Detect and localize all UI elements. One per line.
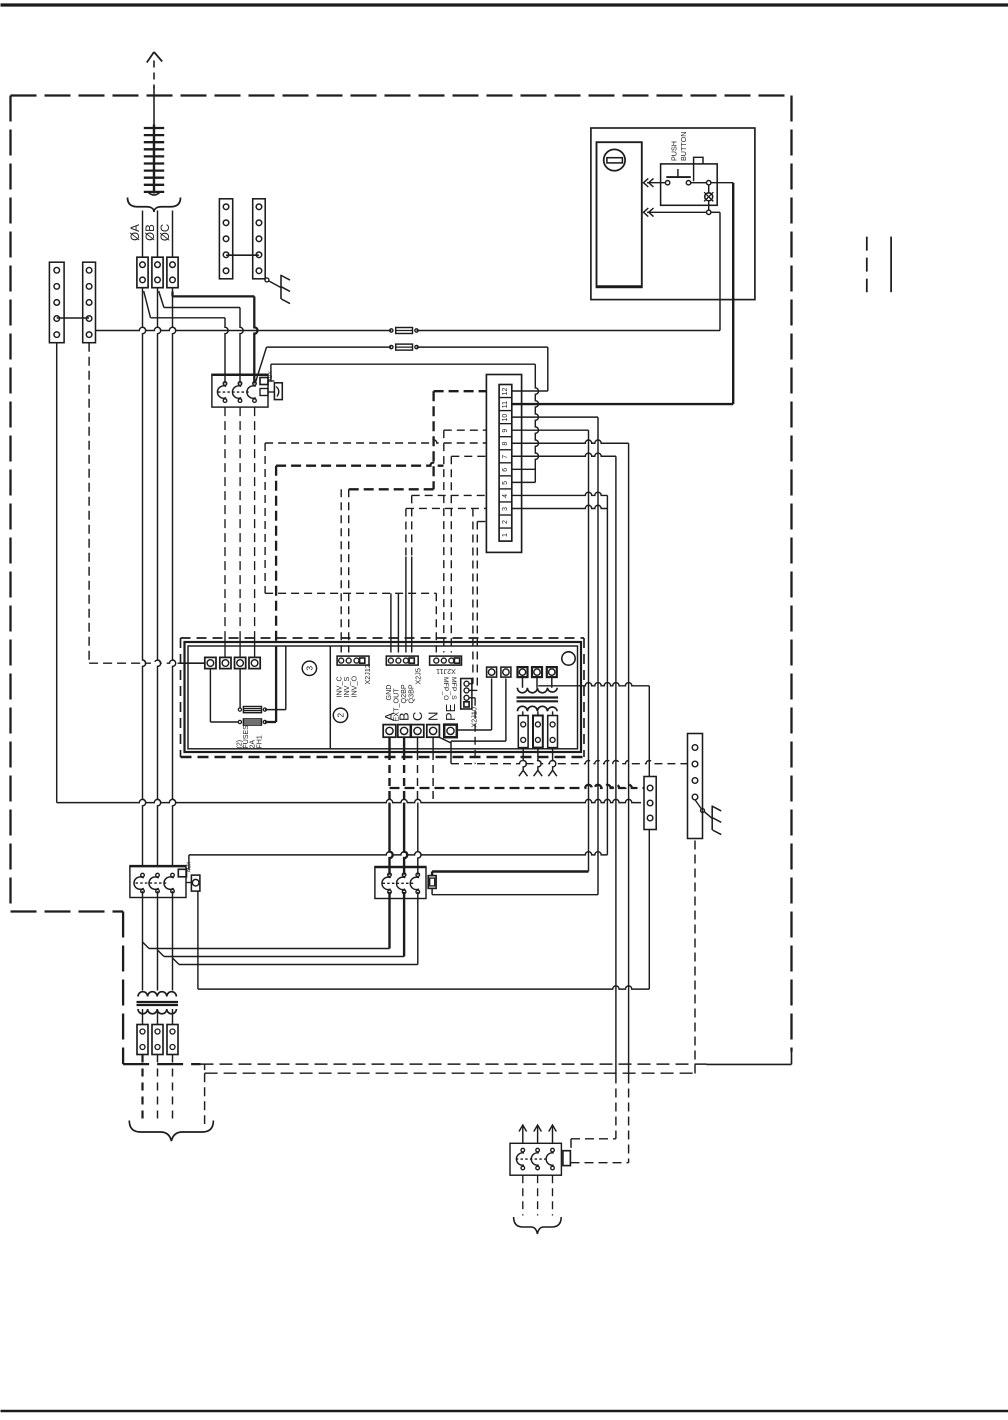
svg-text:11: 11 xyxy=(502,401,509,408)
svg-text:X2J12: X2J12 xyxy=(363,664,372,684)
svg-text:2: 2 xyxy=(502,520,509,524)
svg-text:2: 2 xyxy=(335,713,345,718)
svg-text:3: 3 xyxy=(304,666,314,671)
svg-text:PUSH: PUSH xyxy=(670,141,679,161)
svg-text:ØB: ØB xyxy=(145,224,157,241)
svg-text:Q3BP: Q3BP xyxy=(407,684,416,703)
svg-text:INV_O: INV_O xyxy=(349,676,358,698)
svg-text:MFP_O: MFP_O xyxy=(442,677,449,700)
svg-text:ØA: ØA xyxy=(130,224,142,241)
svg-text:10: 10 xyxy=(502,414,509,422)
svg-text:9: 9 xyxy=(502,429,509,433)
svg-text:A: A xyxy=(382,712,397,721)
svg-text:C: C xyxy=(410,712,425,721)
svg-text:N: N xyxy=(426,712,441,721)
svg-text:PE: PE xyxy=(443,703,458,721)
svg-text:X2J11: X2J11 xyxy=(436,667,456,676)
svg-text:1: 1 xyxy=(502,533,509,537)
svg-text:MFP_S: MFP_S xyxy=(450,677,457,700)
svg-text:8: 8 xyxy=(502,442,509,446)
svg-text:5: 5 xyxy=(502,481,509,485)
svg-text:AUX: AUX xyxy=(268,371,274,382)
svg-text:X2J5: X2J5 xyxy=(413,668,422,684)
svg-text:FH1: FH1 xyxy=(257,735,264,748)
svg-text:2A: 2A xyxy=(249,740,256,749)
svg-text:3: 3 xyxy=(502,507,509,511)
svg-text:BUTTON: BUTTON xyxy=(679,132,688,161)
svg-text:12: 12 xyxy=(502,388,509,396)
svg-text:ØC: ØC xyxy=(160,224,172,241)
svg-text:7: 7 xyxy=(502,455,509,459)
svg-text:4: 4 xyxy=(502,494,509,498)
svg-text:X2J10: X2J10 xyxy=(469,707,478,727)
svg-text:6: 6 xyxy=(502,468,509,472)
svg-text:AUX: AUX xyxy=(187,861,193,872)
